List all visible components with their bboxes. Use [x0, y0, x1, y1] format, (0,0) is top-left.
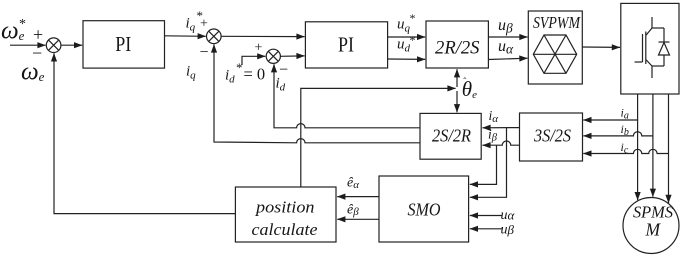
svg-text:= 0: = 0: [244, 65, 266, 84]
block 2R/2S inverse park transform: [426, 21, 488, 68]
svg-text:id: id: [225, 68, 235, 86]
svg-text:+: +: [200, 17, 208, 32]
wire i_d* stub into junction 3: [242, 56, 265, 65]
wire SMO to position calculate e_beta: [337, 218, 379, 220]
svg-text:−: −: [279, 62, 288, 79]
svg-text:+: +: [255, 40, 263, 55]
svg-text:PI: PI: [338, 32, 354, 56]
svg-text:êβ: êβ: [347, 202, 359, 218]
node i_q* label with plus: [186, 8, 209, 34]
wire PI1 to junction2: [165, 35, 206, 38]
wire inverter phase b to motor: [652, 94, 654, 197]
wire theta_e vertical between 2R/2S and 2S/2R with branch: [301, 69, 457, 187]
wire SMO to position calculate e_alpha: [337, 196, 379, 198]
wire junction1 to PI1: [61, 44, 82, 46]
summing junction 3: [266, 49, 280, 63]
svg-text:uβ: uβ: [498, 17, 513, 36]
wire junction3 to PI2: [280, 55, 304, 57]
svg-text:3S/2S: 3S/2S: [533, 125, 571, 145]
svg-text:êα: êα: [347, 176, 359, 192]
svg-text:iq: iq: [186, 16, 196, 34]
node e_alpha hat label: [347, 176, 359, 192]
svg-text:2R/2S: 2R/2S: [435, 38, 480, 59]
wire omega_e* input: [10, 44, 46, 46]
wire u_alpha into SMO: [470, 215, 502, 217]
svg-text:SMO: SMO: [408, 199, 441, 219]
svg-text:*: *: [410, 33, 416, 47]
diode antiparallel inside inverter: [652, 28, 670, 66]
block 2S/2R park transform: [420, 113, 481, 159]
wire PI2 to 2R/2S u_q*: [388, 36, 426, 38]
svg-text:ia: ia: [621, 106, 629, 122]
wire 2R/2S to SVPWM u_beta: [488, 36, 527, 38]
wire 3S/2S to 2S/2R i_beta with hop: [482, 141, 519, 145]
block position calculate: [235, 187, 336, 242]
wire omega feedback from position calculate to junction 1: [54, 53, 235, 213]
svg-text:*: *: [19, 17, 26, 32]
svg-text:uα: uα: [498, 38, 514, 57]
wire i_q feedback from 2S/2R to junction 2 with hop: [214, 44, 420, 142]
svg-text:calculate: calculate: [252, 220, 318, 239]
node u_d* label: [397, 33, 416, 55]
svg-text:2S/2R: 2S/2R: [432, 125, 471, 145]
svg-text:position: position: [255, 197, 315, 216]
node omega_e* input label: [1, 17, 26, 45]
wire i_alpha tap down to SMO: [470, 128, 507, 198]
svg-text:iβ: iβ: [488, 127, 498, 144]
summing junction 2: [207, 29, 222, 44]
node e_beta hat label: [347, 202, 359, 218]
wire u_beta into SMO: [470, 228, 502, 230]
wire 2R/2S to SVPWM u_alpha: [488, 58, 527, 59]
wire SVPWM to inverter: [582, 46, 620, 48]
svg-text:iα: iα: [489, 108, 499, 125]
block PI speed regulator: [83, 21, 165, 68]
svg-text:SVPWM: SVPWM: [533, 13, 581, 32]
block SMO sliding mode observer: [379, 176, 469, 242]
wire PI2 to 2R/2S u_d*: [388, 58, 426, 60]
transistor IGBT inside inverter: [635, 17, 653, 78]
svg-text:ˆ: ˆ: [463, 76, 466, 86]
svg-text:−: −: [200, 44, 209, 61]
svg-text:+: +: [33, 25, 43, 45]
hexagon space vector icon inside SVPWM: [533, 35, 576, 73]
wire inverter phase c to motor: [668, 94, 670, 203]
motor SPMSM circle: [623, 198, 679, 254]
node i_d*=0 label: [225, 60, 265, 86]
node theta_e hat label: [462, 76, 477, 101]
node u_q* label: [397, 11, 416, 35]
block inverter: [621, 3, 679, 94]
block PI current regulator: [305, 22, 387, 68]
block SVPWM: [528, 11, 582, 84]
block 3S/2S clarke transform: [520, 113, 583, 161]
wire inverter phase a to motor: [637, 94, 639, 200]
svg-text:uβ: uβ: [501, 222, 515, 238]
wire phase a current tap to 3S/2S: [583, 119, 637, 121]
wire i_d feedback from 2S/2R to junction 3 with hop: [274, 64, 420, 128]
svg-text:iq: iq: [186, 64, 196, 82]
summing junction 1: [46, 38, 61, 53]
svg-text:*: *: [410, 11, 416, 25]
wire i_beta tap down to SMO: [470, 145, 497, 184]
svg-text:M: M: [645, 220, 662, 240]
wire junction2 to PI2: [221, 35, 305, 37]
svg-text:uq: uq: [397, 17, 411, 35]
svg-text:ud: ud: [397, 37, 411, 55]
wire phase b current tap to 3S/2S with hop: [583, 132, 653, 136]
svg-text:PI: PI: [115, 32, 131, 56]
wire phase c current tap to 3S/2S with two hops: [583, 149, 668, 153]
wire 3S/2S to 2S/2R i_alpha: [482, 127, 519, 129]
